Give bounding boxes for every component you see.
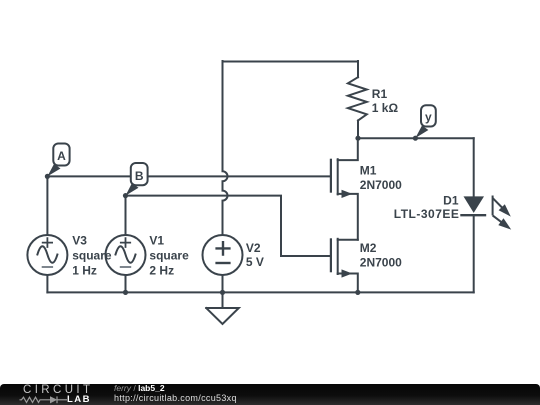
svg-text:D1: D1: [443, 193, 459, 207]
transistor M2 gate bar: [330, 239, 332, 271]
transistor M1 drain: [338, 138, 358, 160]
svg-text:2N7000: 2N7000: [360, 256, 402, 270]
svg-text:A: A: [57, 149, 66, 163]
V1 sine wave: [116, 246, 136, 263]
wire R1 top lead: [357, 61, 359, 77]
svg-text:V1: V1: [149, 234, 164, 248]
svg-text:2N7000: 2N7000: [360, 178, 402, 192]
wire LED cathode vertical: [473, 215, 475, 292]
junction dot V2 bottom: [220, 290, 225, 295]
svg-text:1 kΩ: 1 kΩ: [372, 101, 399, 115]
wire node A down to V3: [46, 176, 48, 235]
svg-text:M2: M2: [360, 241, 377, 255]
svg-text:B: B: [135, 169, 144, 183]
transistor M1 source: [338, 194, 358, 240]
svg-text:R1: R1: [372, 87, 388, 101]
svg-text:5 V: 5 V: [246, 255, 264, 269]
wire node B down to V1: [125, 196, 127, 235]
svg-text:V2: V2: [246, 241, 261, 255]
ground symbol: [206, 292, 239, 324]
LED D1 triangle: [464, 196, 485, 213]
junction dot R1 bottom: [355, 136, 360, 141]
wire V2 bottom: [222, 275, 224, 292]
footer title line: [114, 384, 414, 393]
svg-text:1 Hz: 1 Hz: [72, 264, 97, 278]
V2 plus sign: [217, 242, 230, 254]
wire LED anode vertical: [473, 138, 475, 196]
logo LAB text: [67, 396, 91, 404]
wire node A horizontal to M1 gate: [47, 175, 329, 177]
footer url line: [114, 394, 414, 403]
transistor M2 drain: [338, 239, 358, 241]
transistor M2 source: [338, 274, 358, 293]
CircuitLab logo: [23, 385, 93, 396]
voltage source V2 circle: [203, 235, 243, 275]
junction dot node A: [45, 174, 50, 179]
wire node y horizontal: [358, 137, 474, 139]
V1 plus sign: [121, 238, 130, 247]
svg-text:M1: M1: [360, 163, 377, 177]
V3 minus sign: [43, 266, 52, 268]
junction dot M2 source bottom: [355, 290, 360, 295]
V1 minus sign: [121, 266, 130, 268]
junction dot node B: [123, 193, 128, 198]
transistor M1 gate bar: [330, 160, 332, 192]
LED D1 cathode bar: [462, 214, 486, 216]
wire V3 bottom: [46, 275, 48, 292]
svg-text:LTL-307EE: LTL-307EE: [394, 207, 460, 221]
logo resistor squiggle and diode: [20, 396, 68, 403]
V3 sine wave: [37, 246, 57, 263]
wire R1 bottom lead: [357, 121, 359, 139]
svg-text:y: y: [425, 110, 432, 124]
wire bottom rail: [47, 291, 473, 293]
wire node B to M2 gate: [126, 196, 330, 256]
node flag y: [415, 105, 435, 138]
transistor M2 source arrow: [342, 269, 353, 277]
svg-text:square: square: [72, 249, 112, 263]
voltage source V1 circle: [106, 235, 146, 275]
node flag B: [126, 163, 148, 196]
wire top rail: [223, 61, 359, 63]
svg-text:square: square: [149, 249, 189, 263]
resistor R1 zigzag: [348, 77, 367, 120]
junction dot V1 bottom: [123, 290, 128, 295]
transistor M2 channel: [337, 239, 339, 274]
node flag A: [47, 144, 69, 177]
transistor M1 channel: [337, 159, 339, 194]
LED D1 light arrows: [493, 196, 512, 230]
junction dot node y: [413, 136, 418, 141]
wire V2 vertical riser with crossover hops: [223, 61, 228, 235]
voltage source V3 circle: [27, 235, 67, 275]
V3 plus sign: [43, 238, 52, 247]
svg-text:V3: V3: [72, 234, 87, 248]
footer bar: [0, 384, 540, 405]
svg-text:2 Hz: 2 Hz: [149, 264, 174, 278]
wire V1 bottom: [125, 275, 127, 292]
transistor M1 source arrow: [342, 190, 353, 198]
V2 minus sign: [217, 262, 230, 264]
